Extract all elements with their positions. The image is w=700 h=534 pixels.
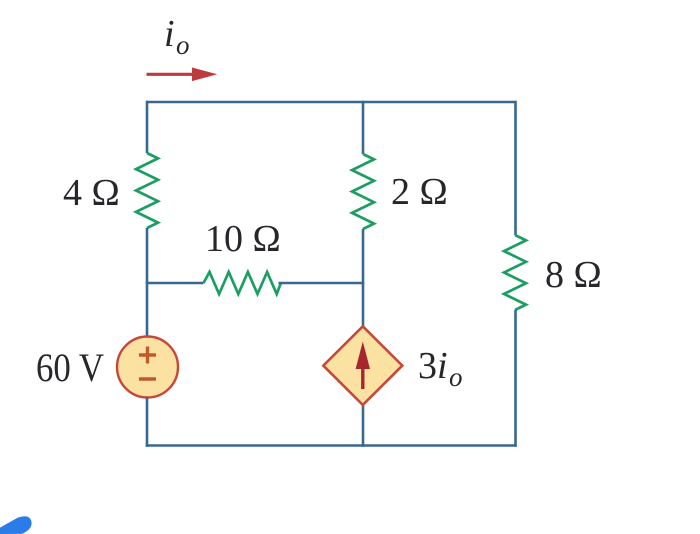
wire top (node a to node b rail) xyxy=(147,101,516,104)
minus sign of V1 xyxy=(139,377,156,380)
decorative blue swoosh (bottom-left corner) xyxy=(0,516,32,534)
resistor R1 4-ohm (vertical zigzag) xyxy=(136,153,158,228)
resistor R3 10-ohm (horizontal zigzag) xyxy=(204,272,281,294)
arrow of dependent source (pointing up) xyxy=(361,355,364,389)
wire mid horizontal left segment (left branch to 10-ohm) xyxy=(146,282,204,285)
wire middle (2-ohm bottom to diamond top, through mid-wire node) xyxy=(362,229,365,327)
wire middle upper (top rail to 2-ohm top) xyxy=(362,101,365,154)
svg-text:10 Ω: 10 Ω xyxy=(205,218,281,260)
wire left upper (top rail down to 4-ohm top) xyxy=(146,101,149,153)
wire mid horizontal right segment (10-ohm to middle branch) xyxy=(279,282,365,285)
voltage source V1 60V (circle) xyxy=(117,337,178,398)
wire left middle (4-ohm bottom to 60V source top, through node at mid wire) xyxy=(146,228,149,337)
svg-text:3: 3 xyxy=(418,345,437,387)
plus sign of V1 xyxy=(139,347,156,364)
resistor R2 2-ohm (vertical zigzag) xyxy=(352,154,374,229)
dependent current source 3io (diamond) xyxy=(323,326,402,405)
svg-text:60 V: 60 V xyxy=(36,345,104,390)
svg-text:o: o xyxy=(176,30,190,60)
wire left lower (source bottom to bottom rail) xyxy=(146,397,149,447)
wire middle lower (diamond bottom to bottom rail) xyxy=(362,404,365,447)
resistor R4 8-ohm (vertical zigzag) xyxy=(504,235,526,310)
svg-text:2 Ω: 2 Ω xyxy=(391,171,448,213)
current arrow io (red, pointing right) xyxy=(147,73,198,76)
svg-text:i: i xyxy=(164,13,175,55)
wire right lower (8-ohm bottom to bottom rail) xyxy=(514,310,517,447)
svg-text:o: o xyxy=(449,362,463,392)
svg-text:i: i xyxy=(437,345,448,387)
svg-text:4 Ω: 4 Ω xyxy=(63,172,120,214)
wire right upper (top rail to 8-ohm top) xyxy=(514,101,517,235)
svg-text:8 Ω: 8 Ω xyxy=(545,254,602,296)
wire bottom rail xyxy=(146,444,517,447)
